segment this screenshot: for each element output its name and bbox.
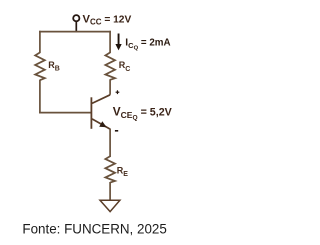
VCC stem wire [75, 21, 77, 31]
wire collector vertical [109, 79, 111, 95]
svg-text:RE: RE [117, 165, 129, 178]
plus sign [116, 90, 120, 94]
transistor Q1 [91, 95, 110, 129]
resistor RB [35, 53, 45, 81]
svg-text:VCC = 12V: VCC = 12V [83, 14, 132, 27]
svg-text:VCEQ = 5,2V: VCEQ = 5,2V [113, 104, 173, 121]
resistor RE [105, 156, 115, 182]
wire base [39, 112, 91, 114]
svg-text:Fonte: FUNCERN, 2025: Fonte: FUNCERN, 2025 [22, 221, 166, 236]
minus sign [115, 130, 118, 132]
wire to ground [109, 182, 111, 200]
wire left rail upper [39, 31, 41, 53]
wire emitter vertical [109, 129, 111, 157]
wire left rail lower [39, 80, 41, 114]
svg-text:ICQ = 2mA: ICQ = 2mA [125, 38, 170, 52]
wire right rail upper [109, 31, 111, 53]
resistor RC [105, 53, 115, 80]
top wire [39, 31, 111, 33]
svg-text:RB: RB [48, 60, 60, 73]
current arrow ICQ [115, 34, 121, 51]
ground [100, 200, 120, 211]
VCC terminal [73, 15, 79, 21]
svg-text:RC: RC [119, 60, 131, 73]
